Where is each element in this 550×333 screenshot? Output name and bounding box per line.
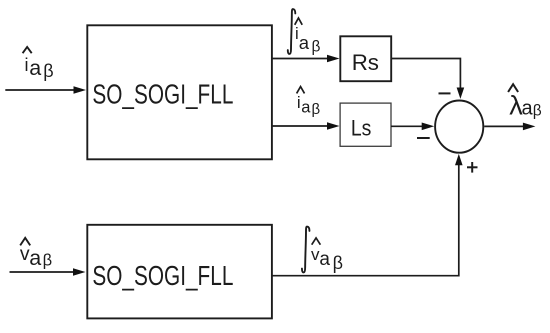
label integral v_ab: letters (311, 245, 343, 273)
sign minus at left input of summing junction (417, 137, 430, 139)
wire U1 integral output to Rs (273, 55, 340, 63)
svg-text:β: β (333, 253, 343, 273)
label integral v_ab: hat (312, 238, 321, 245)
svg-text:SO_SOGI_FLL: SO_SOGI_FLL (92, 260, 233, 291)
gain block Ls (340, 103, 391, 146)
svg-text:a: a (522, 98, 534, 120)
svg-text:Rs: Rs (352, 50, 379, 75)
svg-text:β: β (43, 61, 53, 81)
label i_ab letters (second output) (297, 93, 321, 118)
label Rs (352, 50, 379, 75)
wire Ls output to summing junction (left) (391, 123, 434, 131)
label integral i_ab: letters (295, 25, 321, 56)
label integral i_ab: hat (295, 18, 303, 25)
svg-text:a: a (29, 246, 41, 270)
block U2 SO_SOGI_FLL (bottom) (87, 225, 272, 319)
label lambda_ab hat (output) (508, 84, 518, 92)
label integral v_ab: integral sign (302, 227, 310, 273)
wire input v_ab into U2 (10, 268, 86, 276)
svg-text:SO_SOGI_FLL: SO_SOGI_FLL (92, 78, 233, 109)
label v_ab hat (bottom input) (20, 238, 30, 246)
wire U2 output up to summing junction (+) (272, 154, 463, 276)
svg-text:β: β (312, 101, 321, 118)
summing junction S1 (435, 101, 483, 153)
label Ls (351, 116, 372, 141)
label U1 SO_SOGI_FLL (92, 78, 233, 109)
block U1 SO_SOGI_FLL (top) (87, 25, 272, 159)
wire input i_ab into U1 (5, 86, 86, 94)
wire U1 second output to Ls (273, 122, 340, 130)
svg-text:a: a (301, 99, 311, 117)
svg-text:β: β (533, 103, 542, 120)
label v_ab letters (bottom input) (20, 243, 52, 270)
svg-text:β: β (43, 251, 53, 269)
wire Rs output to summing junction (down) (391, 59, 464, 99)
svg-text:β: β (312, 38, 321, 55)
svg-text:i: i (25, 55, 29, 75)
label i_ab hat (second output) (297, 87, 305, 94)
label i_ab letters (top input) (25, 55, 54, 81)
label lambda_ab letters (output) (509, 91, 542, 121)
label i_ab hat (top input) (23, 47, 32, 53)
label integral i_ab: integral sign (288, 9, 296, 54)
gain block Rs (340, 36, 391, 81)
wire summing junction output lambda (484, 123, 535, 131)
svg-text:a: a (299, 32, 310, 53)
svg-text:Ls: Ls (351, 116, 372, 141)
svg-text:i: i (297, 93, 301, 112)
sign plus at bottom input of summing junction (467, 162, 478, 173)
svg-text:a: a (319, 249, 330, 270)
sign minus at top input of summing junction (439, 92, 451, 94)
svg-text:a: a (29, 56, 41, 80)
label U2 SO_SOGI_FLL (92, 260, 233, 291)
